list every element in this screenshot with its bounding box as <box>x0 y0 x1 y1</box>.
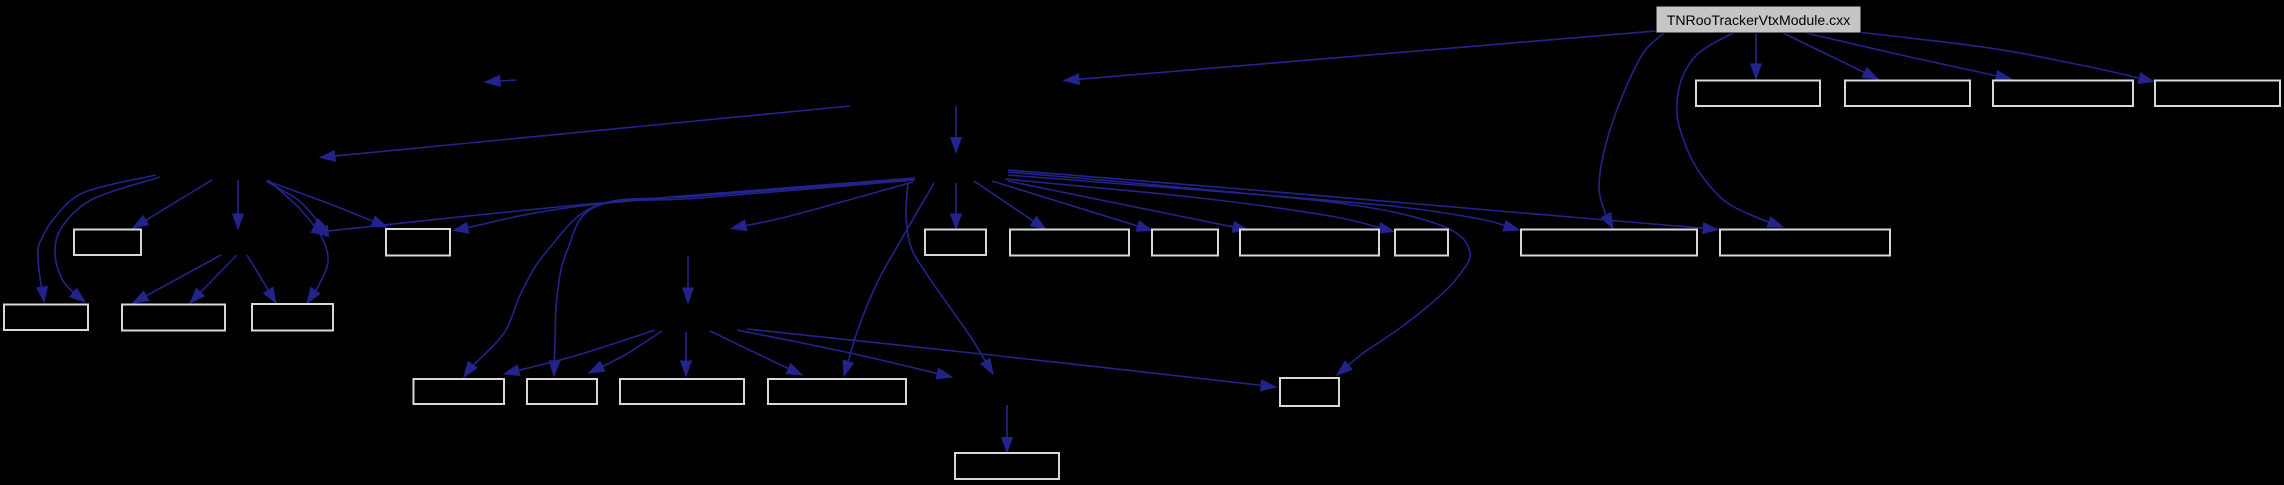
edge N_mid2->E4 <box>843 183 934 376</box>
edge N_mid2->C2 <box>974 181 1046 230</box>
edge M->N_mid1 <box>1064 31 1656 85</box>
edge N_mid2->E5 <box>1008 172 1470 375</box>
edge N_mid2->N2 <box>313 178 915 236</box>
node box L1 <box>74 230 141 256</box>
node box E3 <box>620 379 744 404</box>
edge N2m->N3 <box>683 256 694 304</box>
edge N_mid2->C5 <box>1005 179 1394 233</box>
edge N_mid1->N_mid2 <box>951 106 962 153</box>
edge M->D1 <box>1599 33 1664 229</box>
edge N1->N2 <box>233 180 244 229</box>
edge N3->E1 <box>504 330 655 376</box>
node box B3 <box>252 304 333 331</box>
edge M->D2 <box>1677 33 1783 227</box>
edge N3->E2 <box>589 331 662 373</box>
node box box3 <box>1993 81 2133 107</box>
edge M->box1 <box>1751 33 1762 79</box>
edge E_x->F <box>1002 405 1013 453</box>
node box D2 <box>1720 230 1890 256</box>
node TNRooTrackerVtxModule.cxx <box>1656 6 1861 33</box>
edge N3->E5 <box>747 329 1276 391</box>
edge M->box3 <box>1806 33 2011 81</box>
edge N_mid2->R2 <box>453 180 915 233</box>
node box C2 <box>1010 230 1129 256</box>
edge N_mid2->D1 <box>1008 175 1519 231</box>
edge N1->L1 <box>133 180 212 228</box>
edge N1->R2 <box>267 181 387 227</box>
edge N_mid1->N1 <box>320 106 850 161</box>
edge N_mid2->E2 <box>549 180 914 376</box>
edge N1->B1a <box>37 175 156 302</box>
node box box2 <box>1845 81 1970 107</box>
node box C3 <box>1152 230 1218 256</box>
edge M->box2 <box>1783 33 1878 79</box>
edge M->box4 <box>1858 32 2154 84</box>
node box C5 <box>1395 230 1448 256</box>
edge N2->B2b <box>190 255 237 303</box>
node box box1 <box>1696 81 1820 107</box>
node box B2 <box>122 305 225 331</box>
node box E2 <box>527 379 597 404</box>
edge N3->E_x <box>737 330 952 379</box>
edge N1->N2b <box>266 181 325 233</box>
edge N2->B3 <box>247 255 276 303</box>
node box C1 <box>925 230 986 256</box>
edge N_mid2->C3 <box>992 181 1152 231</box>
edge N_mid2->N2m <box>731 182 913 231</box>
edge N3->E4 <box>710 331 802 375</box>
edge N3->E3 <box>681 332 692 376</box>
edge N_mid2->C4 <box>1008 181 1248 232</box>
node box C4 <box>1240 230 1379 256</box>
edge N1->B3 <box>268 180 328 303</box>
node box E1 <box>414 379 505 404</box>
edge N_mid1->N_w <box>485 76 516 87</box>
edge N_mid2->C1 <box>951 183 962 229</box>
edge N_mid2->E_x <box>906 183 993 374</box>
node box R2 <box>386 229 450 256</box>
node box E5 <box>1280 378 1339 406</box>
node box D1 <box>1521 230 1697 256</box>
edge N2->B2a <box>133 255 221 303</box>
edge N_mid2->D2 <box>1008 170 1718 234</box>
edge N1->B1b <box>55 177 160 302</box>
node box E4 <box>768 379 906 404</box>
node box box4 <box>2155 81 2280 107</box>
edge N_mid2->E1 <box>464 179 913 377</box>
node box F <box>955 453 1059 479</box>
node box B1 <box>4 305 88 331</box>
svg-text:TNRooTrackerVtxModule.cxx: TNRooTrackerVtxModule.cxx <box>1667 12 1851 28</box>
